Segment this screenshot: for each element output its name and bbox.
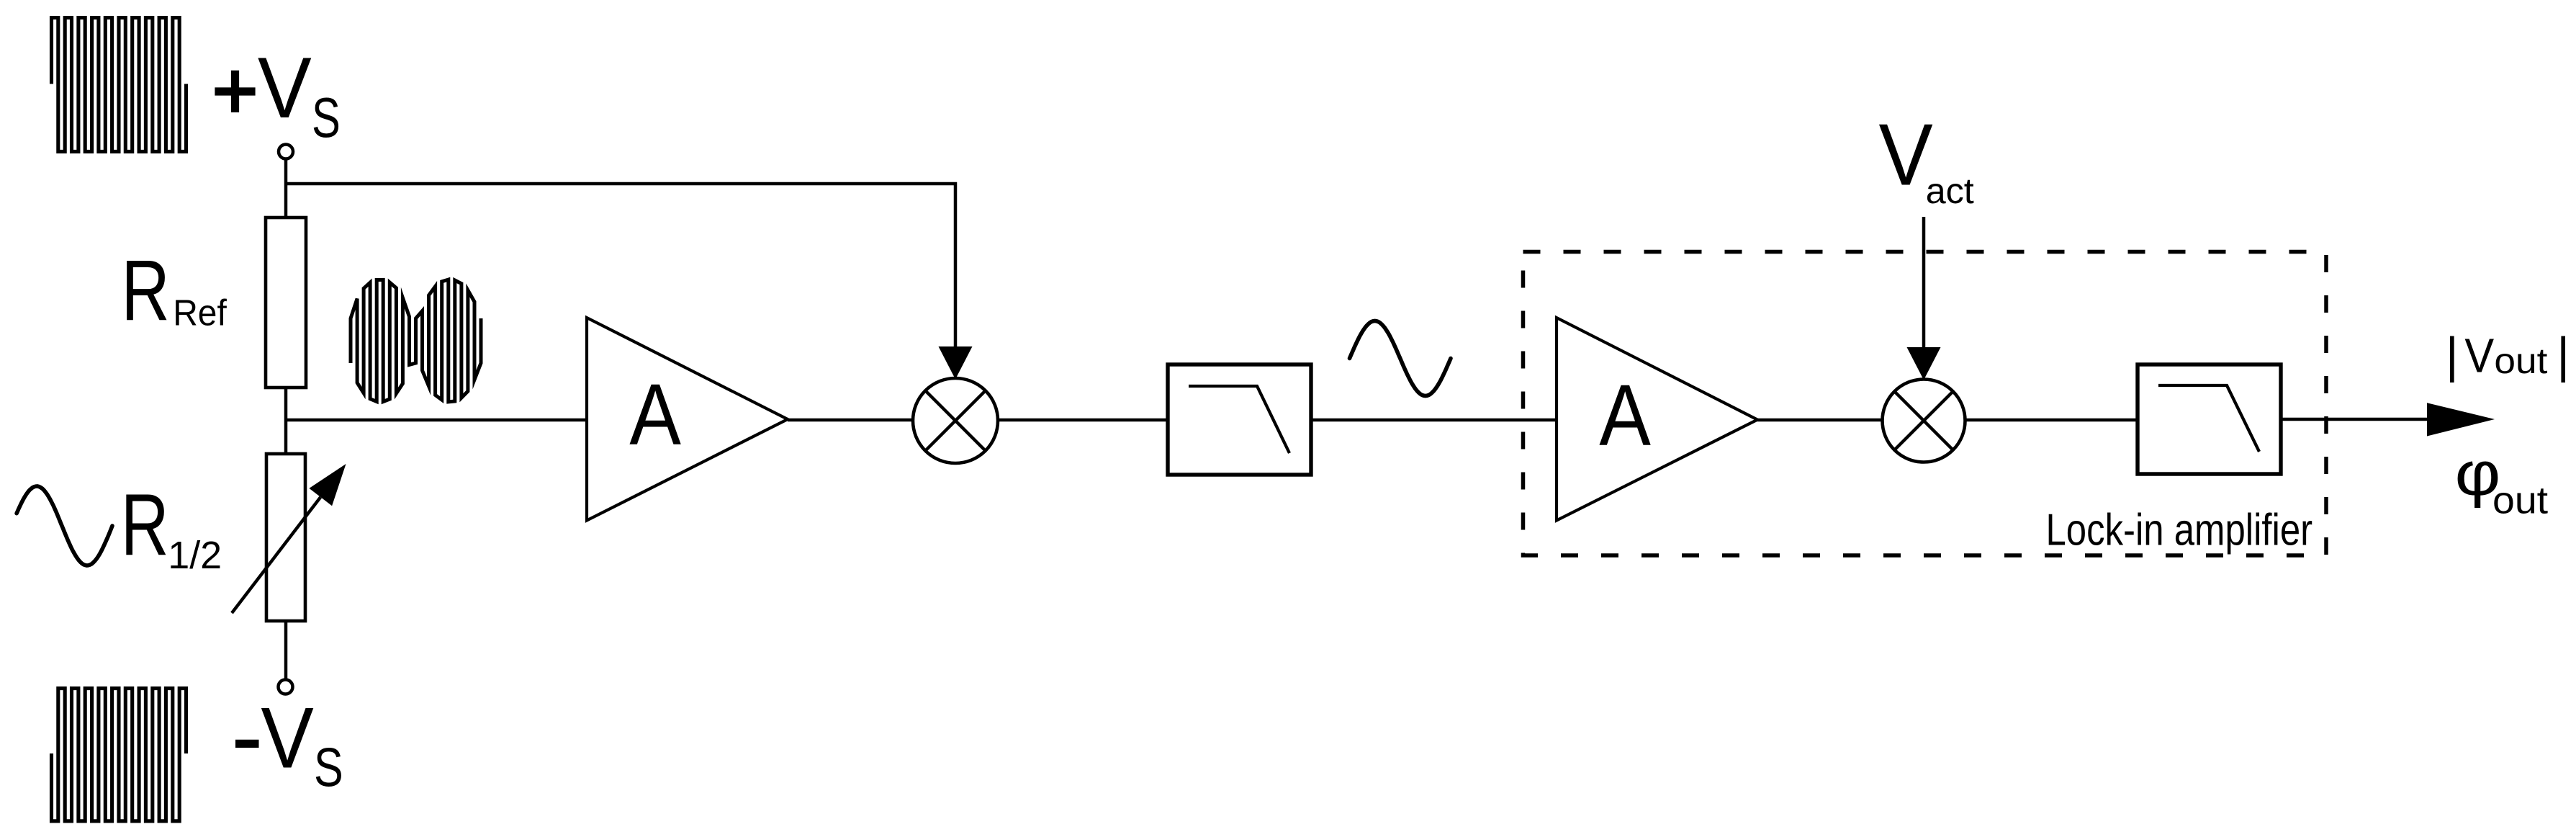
wire bridge node to amplifier A1 bbox=[286, 419, 588, 422]
svg-text:1/2: 1/2 bbox=[168, 534, 222, 577]
sine wave symbol near R1/2 bbox=[17, 486, 112, 565]
svg-text:V: V bbox=[1879, 106, 1933, 204]
meander heater pattern top-left bbox=[52, 18, 186, 152]
wire R1/2 to -Vs bbox=[284, 621, 288, 680]
wire A2 to M2 bbox=[1757, 419, 1884, 422]
svg-text:R: R bbox=[122, 242, 170, 339]
svg-text:S: S bbox=[314, 737, 343, 798]
sine wave symbol before lock-in bbox=[1350, 321, 1451, 396]
svg-text:Lock-in amplifier: Lock-in amplifier bbox=[2046, 506, 2313, 555]
label Vact bbox=[1879, 106, 1974, 211]
label -Vs bbox=[235, 690, 343, 799]
op-amp amplifier A1 bbox=[587, 318, 788, 521]
meander heater pattern bottom-left bbox=[52, 689, 186, 821]
low-pass filter F1 bbox=[1168, 364, 1311, 475]
wire +Vs to RRef bbox=[284, 159, 288, 220]
label R1/2 bbox=[121, 476, 222, 578]
label +Vs bbox=[215, 40, 340, 149]
wire RRef to R1/2 bbox=[284, 388, 288, 455]
bowtie hatched sensor pattern bbox=[351, 279, 481, 402]
arrow across R1/2 bbox=[232, 464, 346, 613]
dashed box lock-in amplifier bbox=[1523, 252, 2327, 556]
op-amp amplifier A2 bbox=[1557, 318, 1757, 521]
svg-text:A: A bbox=[1599, 366, 1651, 464]
variable resistor R1/2 bbox=[266, 454, 305, 621]
resistor RRef bbox=[266, 218, 306, 388]
label RRef bbox=[122, 242, 228, 339]
terminal +Vs bbox=[279, 145, 293, 159]
svg-text:out: out bbox=[2494, 341, 2547, 381]
wire M1 to F1 bbox=[998, 419, 1169, 422]
svg-text:V: V bbox=[258, 40, 312, 136]
terminal -Vs bbox=[279, 680, 293, 694]
svg-text:S: S bbox=[312, 87, 341, 149]
svg-text:Ref: Ref bbox=[173, 292, 227, 334]
arrowhead into multiplier M1 bbox=[939, 346, 973, 380]
svg-text:out: out bbox=[2492, 480, 2548, 522]
svg-text:|: | bbox=[2557, 327, 2570, 383]
multiplier M2 bbox=[1883, 380, 1965, 462]
label |Vout| bbox=[2446, 327, 2570, 383]
svg-text:|: | bbox=[2446, 327, 2459, 383]
wire M2 to F2 bbox=[1965, 419, 2140, 422]
arrowhead into multiplier M2 bbox=[1907, 347, 1941, 380]
svg-text:V: V bbox=[261, 690, 313, 787]
svg-text:V: V bbox=[2464, 328, 2494, 383]
wire Vact into M2 bbox=[1922, 217, 1926, 351]
multiplier M1 bbox=[913, 378, 998, 463]
output wire with arrow bbox=[2281, 403, 2495, 436]
svg-text:A: A bbox=[629, 365, 681, 463]
svg-text:act: act bbox=[1926, 171, 1974, 211]
wire F1 to amplifier A2 bbox=[1311, 419, 1558, 422]
wire A1 to M1 bbox=[788, 419, 914, 422]
low-pass filter F2 bbox=[2138, 364, 2281, 474]
label phi out bbox=[2455, 439, 2549, 522]
wire top rail to multiplier M1 bbox=[286, 184, 955, 350]
svg-text:R: R bbox=[121, 476, 169, 574]
